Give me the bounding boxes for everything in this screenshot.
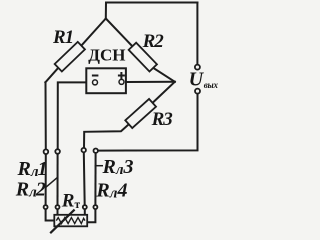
wire terminal A2 to Rt box left [46, 209, 55, 220]
node Uout top terminal [195, 65, 200, 70]
wire bridge lower-right arm with R3 (right node to corner) [84, 82, 175, 148]
node terminal B2 (line 2 bottom) [56, 205, 60, 209]
svg-text:ДСН: ДСН [88, 45, 125, 64]
wire bridge left arm (apex to left node) [45, 19, 105, 83]
leader line for Rl3 label [95, 165, 103, 167]
wire top stub from bridge apex [106, 3, 198, 19]
node terminal A (line 1 top) [44, 149, 49, 154]
leader line for Rl2 label [46, 177, 58, 187]
DSN minus terminal [92, 76, 99, 85]
wire DSN minus lead to line 2 [58, 82, 93, 149]
node terminal D2 (line 4 bottom) [93, 205, 97, 209]
wire terminal D2 to Rt box right [87, 209, 95, 222]
wire bridge right arm (apex to right node) [106, 19, 175, 82]
node terminal D (line 4 top) [94, 149, 98, 153]
wire line 3 segment [83, 152, 86, 205]
wire left node down to terminal A [45, 82, 47, 149]
wire line 2 segment [57, 154, 59, 205]
wire terminal B2 to Rt box top [57, 209, 59, 215]
svg-text:вых: вых [204, 80, 218, 90]
resistor R1 [55, 42, 85, 72]
wire line 1 segment [45, 154, 47, 205]
op box DSN (stabilized voltage source) [86, 68, 126, 93]
wire DSN plus lead to right node [124, 81, 175, 83]
node terminal C (line 3 top) [82, 148, 86, 152]
svg-text:R3: R3 [151, 109, 173, 130]
resistor Rt body box [54, 215, 87, 227]
svg-text:R2: R2 [142, 31, 165, 52]
wire right upper (to Uout top terminal) [196, 3, 198, 65]
resistor Rt thermal diagonal stroke [50, 210, 74, 234]
wire terminal C2 to Rt box top [84, 209, 86, 215]
node terminal B (line 2 top) [55, 149, 60, 154]
node terminal C2 (line 3 bottom) [83, 205, 87, 209]
resistor Rt zigzag element [56, 218, 85, 224]
DSN plus terminal [118, 72, 125, 84]
svg-text:R1: R1 [52, 27, 73, 48]
node terminal A2 (line 1 bottom) [44, 205, 48, 209]
wire right lower (Uout bottom terminal down and left to line 4) [98, 94, 198, 151]
resistor R2 [129, 43, 157, 72]
svg-text:U: U [189, 68, 205, 90]
wire line 4 segment [94, 153, 96, 206]
node Uout bottom terminal [195, 89, 200, 94]
resistor R3 [125, 99, 156, 128]
